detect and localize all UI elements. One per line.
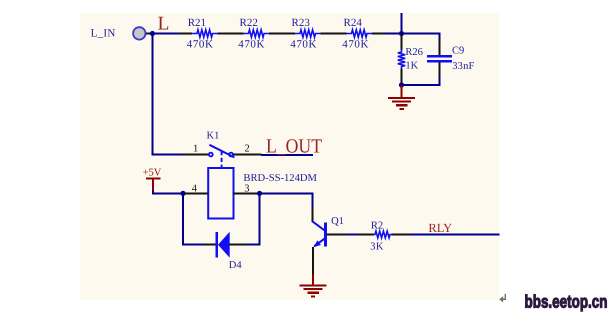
wire: D4 anode-side lead — [203, 244, 216, 246]
svg-text:R26: R26 — [405, 47, 423, 58]
wire: base to R2 — [347, 234, 358, 236]
svg-text:R21: R21 — [188, 17, 206, 29]
junction coil pin 4 — [180, 191, 185, 196]
wire: R24 to junction — [385, 33, 402, 35]
svg-text:2: 2 — [245, 143, 250, 154]
svg-text:3: 3 — [244, 183, 249, 194]
ground (R26/C9) — [388, 85, 415, 109]
svg-text:1: 1 — [193, 143, 198, 154]
wire: C9 bottom to ground rail — [402, 77, 440, 86]
resistor R21 — [179, 30, 231, 37]
wire: L_OUT net — [261, 154, 313, 156]
svg-text:L_IN: L_IN — [91, 28, 116, 40]
wire: L net down to switch — [152, 34, 183, 155]
svg-text:RLY: RLY — [428, 221, 452, 235]
svg-text:1K: 1K — [405, 60, 418, 71]
svg-text:33nF: 33nF — [452, 61, 474, 72]
resistor R24 — [333, 30, 386, 37]
wire: junction to C9 top — [402, 34, 440, 42]
wire: coil pin 4 lead — [183, 192, 209, 194]
power +5V — [143, 167, 162, 191]
junction R26/C9 bottom — [399, 82, 404, 87]
wire: switch pin 1 lead — [183, 154, 209, 156]
svg-text:470K: 470K — [187, 38, 214, 50]
wire: +5V to coil pin 4 — [153, 191, 183, 194]
ground (Q1 emitter) — [300, 275, 327, 297]
resistor R2 — [358, 231, 411, 238]
paragraph return mark — [499, 294, 505, 303]
wire: pin4 down to D4 — [183, 193, 204, 244]
svg-text:4: 4 — [192, 183, 198, 194]
capacitor C9 — [427, 40, 452, 78]
svg-text:R22: R22 — [240, 17, 258, 29]
svg-text:L: L — [158, 14, 170, 35]
wire: port L_IN stub — [146, 33, 151, 35]
svg-text:R23: R23 — [292, 17, 311, 29]
diode D4 — [217, 232, 248, 258]
svg-text:C9: C9 — [452, 45, 464, 56]
port L_IN — [91, 27, 146, 39]
wire: coil pin 3 lead — [233, 192, 260, 194]
svg-text:BRD-SS-124DM: BRD-SS-124DM — [243, 173, 317, 184]
svg-text:470K: 470K — [290, 38, 317, 50]
svg-text:3K: 3K — [370, 241, 384, 252]
wire: L net to R21 — [152, 33, 180, 35]
relay switch K1 contacts — [209, 145, 234, 158]
svg-text:bbs.eetop.cn: bbs.eetop.cn — [525, 293, 608, 313]
svg-text:+5V: +5V — [143, 167, 162, 178]
svg-text:Q1: Q1 — [331, 216, 344, 227]
wire: coil pin 3 to Q1 collector — [260, 193, 313, 208]
junction R24/R26/C9 — [399, 31, 404, 36]
wire: D4 to coil pin 3 — [247, 194, 260, 245]
relay K1 linkage (dashed) — [221, 151, 223, 168]
relay coil K1 body — [208, 168, 233, 219]
svg-text:L_OUT: L_OUT — [266, 135, 322, 157]
resistor R22 — [230, 30, 282, 37]
junction node L — [150, 31, 155, 36]
wire: switch pin 2 lead — [233, 154, 261, 156]
svg-text:R2: R2 — [371, 221, 383, 232]
svg-text:D4: D4 — [229, 260, 243, 271]
svg-text:R24: R24 — [344, 17, 363, 29]
wire: RLY net — [410, 234, 500, 236]
svg-text:470K: 470K — [238, 38, 265, 50]
svg-text:470K: 470K — [342, 38, 369, 50]
svg-text:K1: K1 — [207, 131, 220, 142]
resistor R23 — [282, 30, 334, 37]
junction coil pin 3 — [257, 191, 262, 196]
resistor R26 — [398, 35, 405, 86]
transistor Q1 — [312, 207, 325, 275]
wire: Q1 base lead — [327, 234, 348, 236]
wire: top stub above junction — [401, 13, 403, 34]
